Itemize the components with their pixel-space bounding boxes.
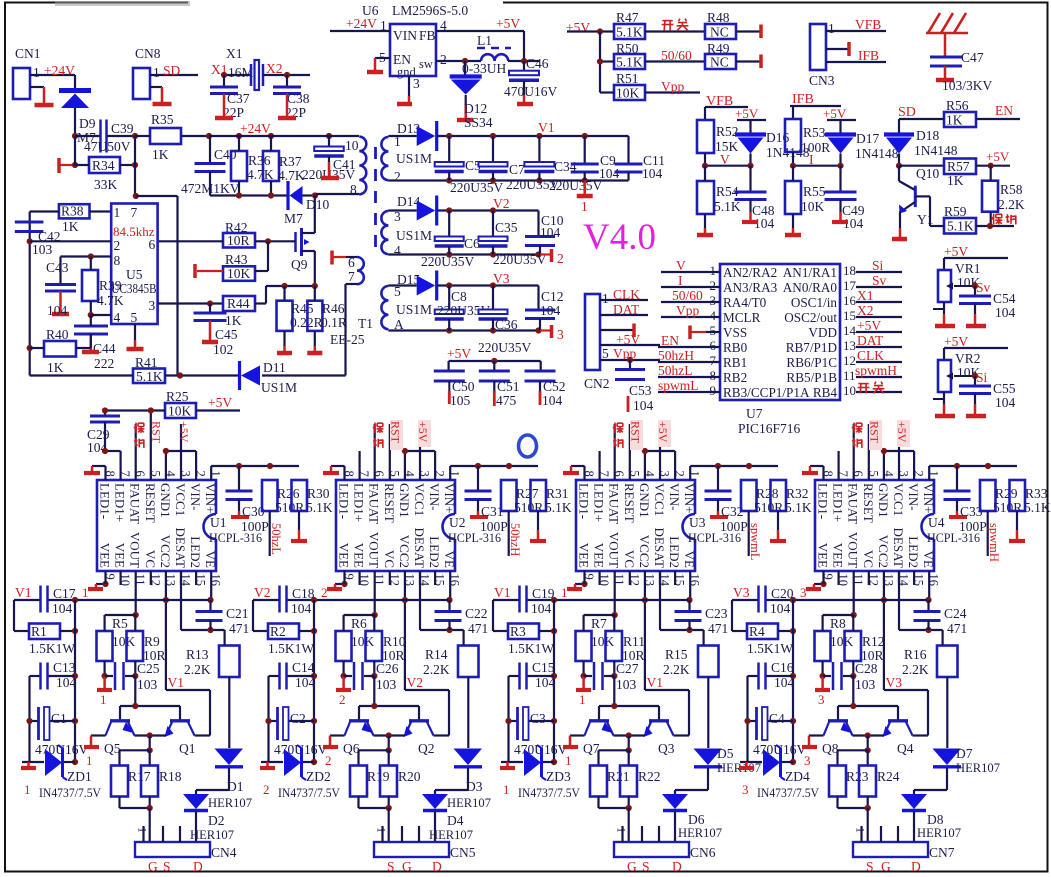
- svg-text:CN5: CN5: [450, 845, 476, 860]
- capacitor C9: [584, 136, 586, 164]
- svg-text:Si: Si: [976, 370, 988, 385]
- wire U6 sw: [436, 60, 481, 62]
- capacitor C52: [540, 361, 542, 371]
- svg-text:VEE: VEE: [337, 543, 352, 568]
- connector CN6: [614, 842, 689, 857]
- svg-text:IFB: IFB: [858, 48, 879, 63]
- svg-text:LM2596S-5.0: LM2596S-5.0: [392, 3, 468, 18]
- resistor R21: [590, 766, 607, 797]
- svg-text:47U50V: 47U50V: [84, 139, 131, 154]
- svg-text:V1: V1: [494, 585, 511, 600]
- capacitor C26 103: [344, 675, 352, 677]
- svg-text:C50: C50: [452, 379, 475, 394]
- transistor Q4 NPN: [888, 719, 908, 722]
- svg-text:D: D: [911, 859, 921, 874]
- svg-text:C46: C46: [526, 56, 549, 71]
- svg-text:RST: RST: [868, 421, 882, 444]
- transistor Q1 NPN: [170, 719, 190, 722]
- svg-text:1K: 1K: [152, 147, 169, 162]
- svg-text:R39: R39: [99, 278, 122, 293]
- net rail above U3 pin1: [689, 466, 691, 480]
- svg-text:HER107: HER107: [429, 827, 473, 842]
- svg-text:1: 1: [33, 65, 40, 80]
- svg-text:3: 3: [742, 782, 749, 797]
- svg-text:spwmH: spwmH: [855, 363, 897, 378]
- svg-text:GND1: GND1: [397, 483, 412, 518]
- svg-text:R17: R17: [128, 769, 151, 784]
- svg-text:U5: U5: [126, 267, 143, 282]
- svg-text:C23: C23: [705, 606, 728, 621]
- capacitor C15 104: [509, 675, 520, 677]
- svg-text:Q4: Q4: [897, 741, 914, 756]
- capacitor C36: [492, 286, 494, 310]
- svg-text:1: 1: [565, 753, 572, 768]
- diode D10: [290, 186, 303, 205]
- svg-text:Q6: Q6: [343, 741, 360, 756]
- svg-text:R9: R9: [144, 634, 160, 649]
- capacitor C31 100P: [477, 466, 479, 490]
- svg-text:LED1-: LED1-: [98, 483, 113, 519]
- svg-text:14: 14: [843, 323, 857, 338]
- node Q9 drain: [312, 192, 318, 198]
- connector CN5: [374, 842, 449, 857]
- resistor R23: [829, 766, 846, 797]
- svg-text:+5V: +5V: [566, 20, 590, 35]
- capacitor C53: [629, 360, 631, 369]
- svg-text:VCC1: VCC1: [412, 483, 427, 516]
- ground net 1 below U1: [96, 583, 106, 585]
- ground C41: [328, 162, 331, 178]
- ground C38: [286, 94, 289, 119]
- svg-text:5: 5: [131, 310, 138, 325]
- ground C48: [749, 200, 751, 213]
- svg-text:8: 8: [114, 253, 121, 268]
- svg-text:EN: EN: [995, 103, 1013, 118]
- svg-text:X1: X1: [226, 46, 243, 61]
- svg-text:104: 104: [295, 675, 316, 690]
- svg-text:C51: C51: [497, 379, 520, 394]
- svg-text:C55: C55: [993, 381, 1016, 396]
- ground C37: [223, 94, 226, 119]
- svg-text:R26: R26: [277, 486, 300, 501]
- svg-text:PIC16F716: PIC16F716: [738, 421, 801, 436]
- node pin7: [133, 193, 139, 199]
- resistor R36: [231, 151, 247, 181]
- ground net 2 Q6 base: [330, 734, 345, 736]
- svg-text:R18: R18: [159, 769, 182, 784]
- capacitor C55: [974, 376, 976, 385]
- ground Q10 emitter: [899, 228, 902, 239]
- svg-text:G: G: [881, 859, 891, 874]
- svg-text:1N4148: 1N4148: [855, 146, 899, 161]
- svg-text:CN2: CN2: [584, 376, 610, 391]
- wire R34 to U5 node: [132, 162, 138, 168]
- node R45 R46 rail: [266, 285, 316, 287]
- left bus V2: [313, 600, 315, 762]
- ground VR2: [943, 392, 945, 404]
- svg-text:104: 104: [995, 305, 1016, 320]
- resistor R6 10K: [336, 631, 352, 661]
- svg-text:D5: D5: [717, 746, 734, 761]
- capacitor C47: [930, 56, 962, 59]
- svg-text:VIN+: VIN+: [442, 483, 457, 513]
- svg-text:R21: R21: [607, 769, 630, 784]
- svg-text:2: 2: [114, 238, 121, 253]
- capacitor C18 104: [278, 586, 281, 613]
- svg-text:U7: U7: [746, 406, 763, 421]
- ground net 1 R7: [582, 676, 585, 690]
- svg-text:1: 1: [581, 199, 588, 214]
- svg-text:4.7K: 4.7K: [278, 168, 305, 183]
- wire pin14 to R13: [180, 571, 182, 630]
- capacitor C44: [74, 325, 108, 328]
- wire U5 pin2: [30, 240, 112, 242]
- capacitor C20 104: [757, 586, 760, 613]
- svg-text:104: 104: [995, 395, 1016, 410]
- svg-text:1: 1: [828, 21, 835, 36]
- svg-text:LED1+: LED1+: [352, 483, 367, 522]
- resistor R11 10R: [606, 631, 623, 661]
- capacitor C54: [974, 286, 976, 295]
- svg-text:RST: RST: [389, 421, 403, 444]
- resistor R16 2.2K: [937, 646, 958, 678]
- svg-text:HER107: HER107: [208, 795, 252, 810]
- svg-text:HER107: HER107: [956, 760, 1000, 775]
- svg-text:471: 471: [229, 621, 249, 636]
- svg-text:C39: C39: [111, 121, 134, 136]
- svg-text:R46: R46: [322, 301, 345, 316]
- IC U1 bottom pin stubs: [104, 571, 106, 584]
- svg-text:V2: V2: [254, 585, 271, 600]
- driver IC U3 HCPL-316 box: [576, 480, 695, 571]
- resistor R5 10K: [97, 631, 113, 661]
- svg-text:V2: V2: [407, 675, 424, 690]
- svg-text:R15: R15: [665, 647, 688, 662]
- svg-text:VC: VC: [861, 550, 876, 568]
- svg-text:17: 17: [843, 278, 857, 293]
- diode D3 HER107: [454, 749, 483, 766]
- ground C54: [974, 304, 976, 315]
- resistor R30 5.1K: [292, 480, 308, 511]
- svg-text:LED2: LED2: [906, 536, 921, 568]
- resistor R24: [859, 766, 876, 797]
- svg-text:NC: NC: [710, 55, 729, 70]
- svg-text:C16: C16: [771, 660, 794, 675]
- resistor R7 10K: [576, 631, 592, 661]
- resistor R45: [277, 301, 293, 331]
- ground R54: [704, 228, 707, 235]
- capacitor C2 470U16V electrolytic: [269, 720, 278, 722]
- rail to drive resistors: [105, 614, 136, 616]
- transformer core dashes: [374, 147, 377, 257]
- svg-text:VDD: VDD: [808, 325, 837, 340]
- resistor R9 10R: [127, 631, 144, 661]
- svg-text:10K: 10K: [591, 634, 615, 649]
- resistor R1 1.5K1W: [13, 600, 15, 631]
- svg-text:X2: X2: [266, 61, 283, 76]
- resistor R19: [350, 766, 367, 797]
- capacitor C41: [328, 136, 330, 147]
- svg-text:220U35V: 220U35V: [421, 254, 474, 269]
- svg-text:GND1: GND1: [637, 483, 652, 518]
- svg-text:18: 18: [843, 263, 856, 278]
- svg-text:C1: C1: [51, 711, 67, 726]
- svg-text:VEE: VEE: [352, 543, 367, 568]
- svg-text:HER107: HER107: [678, 825, 722, 840]
- ground R46: [314, 346, 317, 353]
- svg-text:7: 7: [131, 205, 138, 220]
- rail to drive resistors: [584, 614, 615, 616]
- svg-text:103: 103: [32, 242, 53, 257]
- svg-text:+5V: +5V: [496, 16, 520, 31]
- svg-text:C26: C26: [376, 661, 399, 676]
- transistor Q6 PNP: [373, 676, 375, 706]
- svg-text:4.7K: 4.7K: [97, 293, 124, 308]
- capacitor C3 470U16V electrolytic: [509, 720, 518, 722]
- wire I node: [792, 152, 794, 166]
- svg-text:C47: C47: [961, 50, 984, 65]
- svg-text:5: 5: [710, 323, 717, 338]
- svg-text:CN7: CN7: [929, 845, 955, 860]
- svg-text:13: 13: [843, 338, 856, 353]
- svg-text:VE: VE: [442, 551, 457, 568]
- svg-text:VEE: VEE: [592, 543, 607, 568]
- IC U1 top pin stubs: [104, 466, 106, 480]
- svg-text:+5V: +5V: [656, 421, 670, 443]
- svg-text:LED1+: LED1+: [831, 483, 846, 522]
- diode D5 HER107: [694, 749, 723, 766]
- driver IC U2 HCPL-316 box: [336, 480, 455, 571]
- svg-text:R6: R6: [351, 616, 367, 631]
- IC U2 bottom pin stubs: [343, 571, 345, 584]
- svg-text:3: 3: [800, 585, 807, 600]
- svg-text:R20: R20: [398, 769, 421, 784]
- svg-text:104: 104: [774, 675, 795, 690]
- svg-text:Si: Si: [872, 258, 884, 273]
- svg-text:7: 7: [710, 353, 717, 368]
- svg-text:VEE: VEE: [816, 543, 831, 568]
- ground C55: [974, 394, 976, 405]
- svg-text:9: 9: [710, 383, 717, 398]
- svg-text:R53: R53: [803, 125, 826, 140]
- svg-text:V3: V3: [886, 675, 903, 690]
- svg-text:VC: VC: [382, 550, 397, 568]
- svg-text:1: 1: [100, 692, 107, 707]
- svg-text:VIN-: VIN-: [427, 483, 442, 510]
- capacitor C39: [75, 135, 100, 137]
- label kaiguan switch: [662, 20, 672, 22]
- svg-text:C18: C18: [292, 586, 315, 601]
- svg-text:1: 1: [82, 585, 89, 600]
- capacitor C29: [104, 411, 106, 416]
- node R34: [72, 162, 78, 168]
- svg-text:6: 6: [710, 338, 717, 353]
- svg-text:5.1K: 5.1K: [616, 25, 643, 40]
- svg-text:D1: D1: [227, 779, 244, 794]
- svg-text:VOUT: VOUT: [607, 532, 622, 568]
- diode D11: [241, 366, 260, 386]
- handwritten circle annotation: [519, 435, 537, 457]
- capacitor C42: [15, 221, 44, 224]
- svg-text:OSC1/in: OSC1/in: [791, 295, 838, 310]
- wire CN1 pin1: [30, 74, 75, 76]
- ground CN1: [43, 87, 46, 105]
- svg-text:LED1+: LED1+: [113, 483, 128, 522]
- svg-text:RESET: RESET: [143, 483, 158, 523]
- svg-text:+24V: +24V: [44, 63, 75, 78]
- svg-text:5.1K: 5.1K: [714, 199, 741, 214]
- driver IC U4 HCPL-316 box: [815, 480, 934, 571]
- rotated labels above U2: [390, 420, 403, 450]
- svg-text:C20: C20: [771, 586, 794, 601]
- svg-text:VE: VE: [921, 551, 936, 568]
- svg-text:1: 1: [114, 205, 121, 220]
- resistor R32 5.1K: [771, 480, 787, 511]
- svg-text:105: 105: [450, 393, 471, 408]
- resistor R26 510R: [262, 480, 278, 511]
- ground terminal net 3: [540, 329, 552, 331]
- svg-text:RB1: RB1: [723, 355, 747, 370]
- svg-text:R2: R2: [270, 624, 286, 639]
- svg-text:US1M: US1M: [396, 151, 432, 166]
- resistor R55: [785, 181, 801, 214]
- ground net 2 R6: [342, 676, 345, 690]
- svg-text:R23: R23: [846, 769, 869, 784]
- svg-text:1: 1: [503, 782, 510, 797]
- diode D4 HER107: [434, 790, 436, 794]
- capacitor C28 103: [823, 675, 831, 677]
- svg-text:2.2K: 2.2K: [902, 662, 929, 677]
- wire U5 pin4: [91, 314, 111, 316]
- svg-text:+24V: +24V: [240, 121, 271, 136]
- resistor R46: [307, 301, 322, 331]
- svg-text:+5V: +5V: [823, 106, 847, 121]
- svg-text:R35: R35: [151, 112, 174, 127]
- svg-text:10K: 10K: [616, 86, 640, 101]
- svg-text:CN4: CN4: [211, 845, 237, 860]
- resistor R54: [697, 181, 714, 214]
- svg-text:RA4/T0: RA4/T0: [723, 295, 767, 310]
- svg-text:VIN: VIN: [393, 28, 417, 43]
- svg-text:104: 104: [52, 601, 73, 616]
- node C39/R35: [132, 133, 138, 139]
- svg-text:VC: VC: [622, 550, 637, 568]
- IC U2 top pin stubs: [343, 466, 345, 480]
- svg-text:GND1: GND1: [876, 483, 891, 518]
- svg-text:3: 3: [804, 753, 811, 768]
- svg-text:471: 471: [947, 621, 967, 636]
- svg-text:10K: 10K: [112, 634, 136, 649]
- capacitor C45: [209, 304, 211, 313]
- svg-text:50hzH: 50hzH: [658, 348, 694, 363]
- connector CN2: [585, 294, 600, 370]
- svg-text:R38: R38: [61, 204, 84, 219]
- svg-text:6: 6: [149, 237, 156, 252]
- diode D7 HER107: [933, 749, 962, 766]
- capacitor C46: [523, 61, 525, 71]
- svg-text:VCC2: VCC2: [397, 535, 412, 568]
- svg-text:VEE: VEE: [113, 543, 128, 568]
- svg-text:1: 1: [710, 263, 717, 278]
- svg-text:ZD2: ZD2: [306, 769, 331, 784]
- rail to drive resistors: [344, 614, 375, 616]
- svg-text:Vpp: Vpp: [661, 79, 684, 94]
- svg-text:VCC1: VCC1: [173, 483, 188, 516]
- svg-text:5.1K: 5.1K: [616, 55, 643, 70]
- net rail above U1 pin1: [210, 466, 212, 480]
- svg-text:C21: C21: [226, 606, 249, 621]
- svg-text:1: 1: [579, 692, 586, 707]
- svg-text:2.2K: 2.2K: [423, 662, 450, 677]
- svg-text:R55: R55: [803, 184, 826, 199]
- capacitor C13 104: [30, 675, 41, 677]
- svg-text:V1: V1: [15, 585, 32, 600]
- svg-text:OSC2/out: OSC2/out: [784, 310, 837, 325]
- resistor R20: [380, 766, 397, 797]
- emitter node wire: [614, 734, 646, 736]
- ground VR1: [943, 302, 945, 314]
- svg-text:D: D: [432, 859, 442, 874]
- svg-text:C15: C15: [532, 660, 555, 675]
- ground net 1: [583, 181, 586, 190]
- resistor R2 1.5K1W: [252, 600, 254, 631]
- svg-text:U1: U1: [210, 515, 227, 530]
- svg-text:DESAT: DESAT: [652, 528, 667, 569]
- wire below gate resistors: [836, 797, 838, 809]
- svg-text:1.5K1W: 1.5K1W: [268, 641, 314, 656]
- svg-text:HER107: HER107: [447, 795, 491, 810]
- ground terminal net 2: [540, 253, 552, 255]
- svg-text:S: S: [642, 859, 650, 874]
- svg-text:3: 3: [149, 298, 156, 313]
- svg-text:VIN+: VIN+: [682, 483, 697, 513]
- svg-text:LED2: LED2: [427, 536, 442, 568]
- svg-text:LED1+: LED1+: [592, 483, 607, 522]
- svg-text:CLK: CLK: [857, 348, 884, 363]
- svg-text:100P: 100P: [241, 519, 269, 534]
- svg-text:R4: R4: [749, 624, 765, 639]
- svg-text:C12: C12: [541, 289, 564, 304]
- svg-text:103: 103: [376, 677, 397, 692]
- svg-text:+5V: +5V: [944, 334, 968, 349]
- connector CN3: [810, 24, 826, 70]
- wire below gate resistors: [357, 797, 359, 809]
- svg-text:M7: M7: [284, 211, 303, 226]
- wire pin14 to R14: [419, 571, 421, 630]
- diode D8 HER107: [913, 790, 915, 794]
- svg-text:R34: R34: [92, 158, 115, 173]
- svg-text:C37: C37: [227, 91, 250, 106]
- svg-text:C38: C38: [287, 91, 310, 106]
- svg-text:RST: RST: [629, 421, 643, 444]
- svg-text:C7: C7: [509, 162, 525, 177]
- svg-text:Q10: Q10: [916, 166, 939, 181]
- svg-text:1: 1: [602, 291, 609, 306]
- zener diode ZD3: [501, 761, 523, 763]
- svg-text:VCC1: VCC1: [652, 483, 667, 516]
- svg-text:RB4: RB4: [813, 385, 838, 400]
- svg-text:D: D: [672, 859, 682, 874]
- wire pin14 to R15: [659, 571, 661, 630]
- svg-text:D18: D18: [916, 128, 939, 143]
- resistor R4 1.5K1W: [731, 600, 733, 631]
- svg-text:R44: R44: [227, 296, 250, 311]
- svg-text:104: 104: [542, 393, 563, 408]
- svg-text:VCC2: VCC2: [637, 535, 652, 568]
- ground net 3 zener: [745, 762, 748, 768]
- capacitor C35: [492, 211, 494, 237]
- wire below gate resistors: [597, 797, 599, 809]
